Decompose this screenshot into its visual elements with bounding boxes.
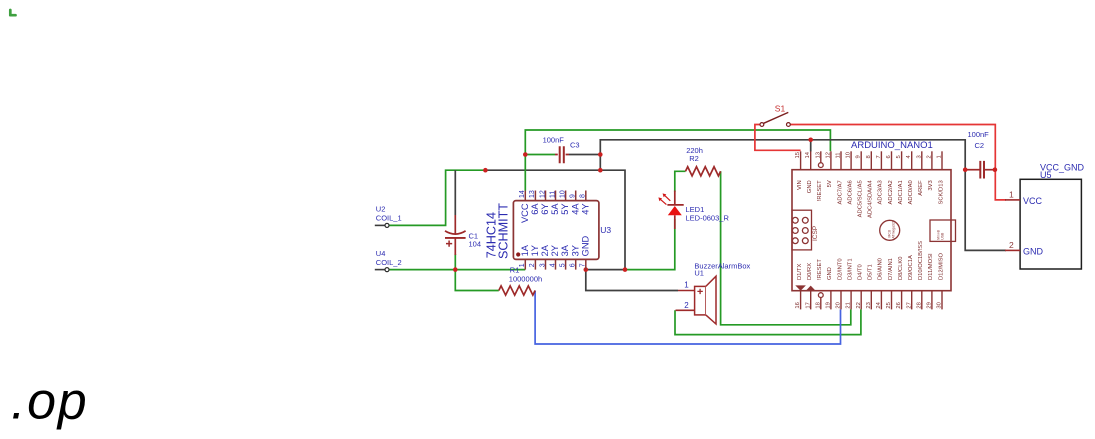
LED LED1 [658,191,729,230]
svg-text:3: 3 [539,263,546,267]
ARDUINO pin 2 3V3 [931,151,933,169]
svg-text:D2/INT0: D2/INT0 [837,258,843,280]
ARDUINO pin 13 !RESET [820,151,822,162]
ARDUINO pin 4 ADC0/A0 [911,151,913,169]
svg-text:7: 7 [876,155,882,158]
wire C3 right to GND net [569,154,600,156]
ARDUINO pin 28 D10/OC1B/!SS [921,291,923,310]
ARDUINO pin 11 ADC7/A7 [840,151,842,169]
svg-text:2: 2 [1009,240,1014,250]
ARDUINO pin 9 ADC5/SCL/A5 [860,151,862,169]
svg-text:29: 29 [927,302,933,308]
svg-text:ADC5/SCL/A5: ADC5/SCL/A5 [858,180,864,217]
svg-text:9: 9 [570,194,577,198]
svg-text:R2: R2 [689,154,699,163]
svg-text:5Y: 5Y [560,203,570,214]
ARDUINO MCU circle [880,220,900,240]
ARDUINO pin 20 D2/INT0 [840,291,842,310]
U3 pin 8 4Y [585,191,587,201]
svg-text:10: 10 [846,152,852,158]
svg-text:1: 1 [937,155,943,158]
ARDUINO pin 19 GND [830,291,832,310]
svg-text:D8/CLK0: D8/CLK0 [898,256,904,280]
ARDUINO pin 10 ADC6/A6 [850,151,852,169]
svg-text:13: 13 [815,152,821,158]
svg-text:D0/RX: D0/RX [807,263,813,280]
net flag L [10,10,15,15]
svg-text:ARDUINO_NANO1: ARDUINO_NANO1 [851,140,933,151]
svg-text:2: 2 [926,155,932,158]
ARDUINO pin 24 D6/AIN0 [880,291,882,310]
svg-text:U3: U3 [600,225,611,235]
svg-text:14: 14 [519,190,526,198]
junction (585.8,269.6) [584,267,589,272]
wire C1 top branch [454,170,456,215]
ARDUINO pin 15 VIN [800,151,802,169]
svg-text:3: 3 [916,155,922,158]
wire VCC green U3 to arduino 5V [525,130,830,191]
svg-text:LED1: LED1 [686,205,705,214]
wire R2 right to arduino D3 [721,171,851,324]
svg-text:AREF: AREF [918,180,924,196]
svg-text:SCHMITT: SCHMITT [497,203,511,259]
svg-text:17: 17 [805,302,811,308]
svg-text:U4: U4 [376,249,386,258]
svg-text:24: 24 [876,301,882,308]
wire gnd segment pin7 to corner [586,269,625,271]
wire S1 right to U5 VCC red [790,125,1006,200]
svg-text:6Y: 6Y [540,203,550,214]
svg-text:C2: C2 [975,141,985,150]
svg-text:26: 26 [896,302,902,308]
ARDUINO pin 14 GND [810,151,812,169]
svg-text:22: 22 [856,302,862,308]
U3 pin 14 VCC [524,191,526,201]
ARDUINO pin17 in arrow [806,286,816,291]
svg-text:1Y: 1Y [530,245,540,256]
svg-text:9: 9 [856,155,862,158]
svg-text:30: 30 [937,302,943,308]
svg-text:GND: GND [580,235,590,256]
ARDUINO pin 12 5V [830,151,832,169]
junction (600.3,170.2) [598,168,603,173]
svg-text:5V: 5V [827,180,833,187]
svg-text:1A: 1A [520,244,530,256]
svg-text:GND: GND [827,267,833,280]
svg-text:2A: 2A [540,244,550,256]
ARDUINO USB connector [930,220,956,241]
svg-text:SCK/D13: SCK/D13 [938,180,944,204]
connector U5 VCC_GND [1005,163,1085,269]
svg-text:S1: S1 [775,104,786,114]
svg-text:1: 1 [519,263,526,267]
switch S1 [760,104,790,127]
svg-text:C3: C3 [570,141,580,150]
capacitor C2 [968,130,990,178]
svg-text:10: 10 [559,190,566,198]
svg-text:1: 1 [1009,190,1014,200]
U3 pin 10 5Y [565,191,567,201]
svg-text:U1: U1 [694,268,704,277]
svg-text:D7/AIN1: D7/AIN1 [888,258,894,280]
svg-text:!RESET: !RESET [817,259,823,280]
wire R1 blue to arduino D2 [535,291,840,345]
wire R1 left lead [455,270,499,291]
svg-text:2: 2 [684,301,689,310]
U3 pin 12 6Y [545,191,547,201]
U3 pin 2 1Y [534,259,536,269]
wire COIL_2 green [390,269,526,271]
wire COIL_1 grey to U3 right [485,170,625,269]
resistor R2 [686,146,721,176]
svg-text:5: 5 [896,155,902,158]
svg-text:6: 6 [886,155,892,158]
svg-text:4: 4 [549,263,556,267]
U3 pin 3 2A [545,259,547,269]
svg-text:5A: 5A [550,203,560,215]
svg-text:3Y: 3Y [570,245,580,256]
svg-text:LED-0603_R: LED-0603_R [686,214,730,223]
U3 pin 9 4A [575,191,577,201]
ARDUINO pin16 out arrow [795,285,806,290]
ARDUINO pin 21 D3/INT1 [850,291,852,310]
svg-text:7: 7 [580,263,587,267]
svg-text:6A: 6A [530,203,540,215]
svg-text:12: 12 [825,152,831,158]
ARDUINO pin 30 D12/MISO [941,291,943,310]
IC ARDUINO_NANO1 [792,140,956,310]
junction (625,269.6) [623,267,628,272]
wire C3 left [525,154,555,156]
svg-text:4A: 4A [570,203,580,215]
U3 pin 13 6A [534,191,536,201]
IC U3 74HC14 [484,190,611,269]
wire C2 left pin [966,169,980,171]
svg-text:3V3: 3V3 [928,180,934,190]
svg-text:.op: .op [11,373,88,431]
svg-text:VCC: VCC [520,203,530,223]
ARDUINO pin 16 D1/TX [800,291,802,310]
wire COIL_1 green [389,170,485,225]
svg-text:2: 2 [529,263,536,267]
svg-text:VIN: VIN [797,180,803,190]
svg-text:ADC0/A0: ADC0/A0 [908,180,914,204]
svg-text:D1/TX: D1/TX [797,263,803,280]
svg-text:1000000h: 1000000h [509,275,542,284]
svg-text:D4/T0: D4/T0 [858,264,864,280]
capacitor C1 [445,215,481,255]
ARDUINO pin 17 D0/RX [810,291,812,310]
U5 pin 1 VCC [1005,199,1020,201]
wire U3 gnd to buzzer [586,270,678,291]
buzzer U1 BuzzerAlarmBox [676,262,751,324]
U3 pin 11 5A [555,191,557,201]
junction (485.4,170.2) [483,168,488,173]
junction (810.7,139.8) [808,138,813,143]
svg-text:4Y: 4Y [580,203,590,214]
svg-text:104: 104 [469,239,482,248]
svg-text:15: 15 [795,152,801,158]
svg-text:28: 28 [916,302,922,308]
svg-text:U5: U5 [1040,170,1052,180]
svg-text:23: 23 [866,302,872,308]
junction (965.2,169.7) [963,167,968,172]
wire S1 left to VIN red [755,125,801,151]
wire GND to arduino pin14 [810,140,812,152]
connector U4 COIL_2 [375,249,402,272]
svg-text:25: 25 [886,302,892,308]
svg-text:8: 8 [580,194,587,198]
ARDUINO pin 5 ADC1/A1 [901,151,903,169]
ARDUINO pin 29 D11/MOSI [931,291,933,310]
wire LED branch green [625,219,675,270]
U5 pin 2 GND [1005,249,1020,251]
junction (600.3,154.5) [598,152,603,157]
svg-text:U2: U2 [376,204,386,213]
ARDUINO pin 23 D5/T1 [870,291,872,310]
svg-text:12: 12 [539,190,546,198]
svg-text:2Y: 2Y [550,245,560,256]
svg-text:1: 1 [684,280,689,289]
ARDUINO pin 3 AREF [921,151,923,169]
svg-text:VCC: VCC [1023,196,1043,206]
U3 pin1 dot [516,252,520,256]
svg-text:D10/OC1B/!SS: D10/OC1B/!SS [918,241,924,280]
svg-text:16: 16 [795,302,801,308]
ARDUINO pin 8 ADC4/SDA/A4 [870,151,872,169]
junction (525.3,154.5) [523,152,528,157]
U3 pin 6 3Y [575,259,577,269]
svg-text:14: 14 [805,151,811,158]
svg-text:R1: R1 [510,266,520,275]
U3 pin 5 3A [565,259,567,269]
svg-text:5: 5 [559,263,566,267]
svg-text:ADC2/A2: ADC2/A2 [888,180,894,204]
svg-text:ADC1/A1: ADC1/A1 [898,180,904,204]
resistor R1 [499,266,542,296]
junction (994.9,169.7) [993,167,998,172]
svg-text:3A: 3A [560,244,570,256]
U3 pin 1 1A [524,259,526,269]
connector U2 COIL_1 [375,204,402,227]
svg-text:20: 20 [836,302,842,308]
svg-text:21: 21 [846,302,852,308]
svg-text:D11/MOSI: D11/MOSI [928,253,934,280]
wire buzzer pin2 to arduino D4 [675,309,861,334]
svg-text:13: 13 [529,190,536,198]
wire LED top to R2 [675,171,686,192]
svg-text:ATmega328: ATmega328 [891,220,895,238]
svg-text:11: 11 [836,152,842,158]
U3 pin 4 2Y [555,259,557,269]
wire GND net main [600,140,1006,251]
ARDUINO pin 27 D9/OC1A [911,291,913,310]
ARDUINO pin 25 D7/AIN1 [891,291,893,310]
svg-text:8: 8 [866,155,872,158]
capacitor C3 [543,135,580,163]
svg-text:19: 19 [826,302,832,308]
svg-text:100nF: 100nF [968,130,990,139]
svg-text:D6/AIN0: D6/AIN0 [878,258,884,280]
ARDUINO ICSP header [792,210,812,250]
ARDUINO pin 1 SCK/D13 [941,151,943,169]
wire C1 bottom green [454,254,456,270]
svg-text:6: 6 [570,263,577,267]
svg-text:D3/INT1: D3/INT1 [847,258,853,280]
U3 pin 7 GND [585,259,587,269]
wire C2 right pin [984,169,995,171]
svg-text:GND: GND [1023,246,1044,256]
svg-text:!RESET: !RESET [817,180,823,201]
ARDUINO pin 6 ADC2/A2 [891,151,893,169]
ARDUINO pin 7 ADC3/A3 [880,151,882,169]
svg-text:ICSP: ICSP [812,226,819,241]
svg-text:D12/MISO: D12/MISO [938,252,944,280]
ARDUINO pin 22 D4/T0 [860,291,862,310]
svg-text:18: 18 [815,302,821,308]
svg-text:COIL_1: COIL_1 [376,213,402,222]
ARDUINO pin 26 D8/CLK0 [901,291,903,310]
svg-text:ADC4/SDA/A4: ADC4/SDA/A4 [868,180,874,218]
svg-text:USB: USB [941,232,945,240]
ARDUINO pin 18 !RESET [820,298,822,310]
svg-text:GND: GND [807,180,813,193]
svg-text:ADC3/A3: ADC3/A3 [878,180,884,204]
svg-text:ADC7/A7: ADC7/A7 [837,180,843,204]
svg-text:D5/T1: D5/T1 [868,264,874,280]
svg-text:COIL_2: COIL_2 [376,258,402,267]
svg-text:27: 27 [906,302,912,308]
junction (455.3,269.6) [453,267,458,272]
svg-text:ADC6/A6: ADC6/A6 [847,180,853,204]
svg-text:100nF: 100nF [543,135,565,144]
svg-text:11: 11 [549,191,556,198]
svg-text:D9/OC1A: D9/OC1A [908,255,914,280]
